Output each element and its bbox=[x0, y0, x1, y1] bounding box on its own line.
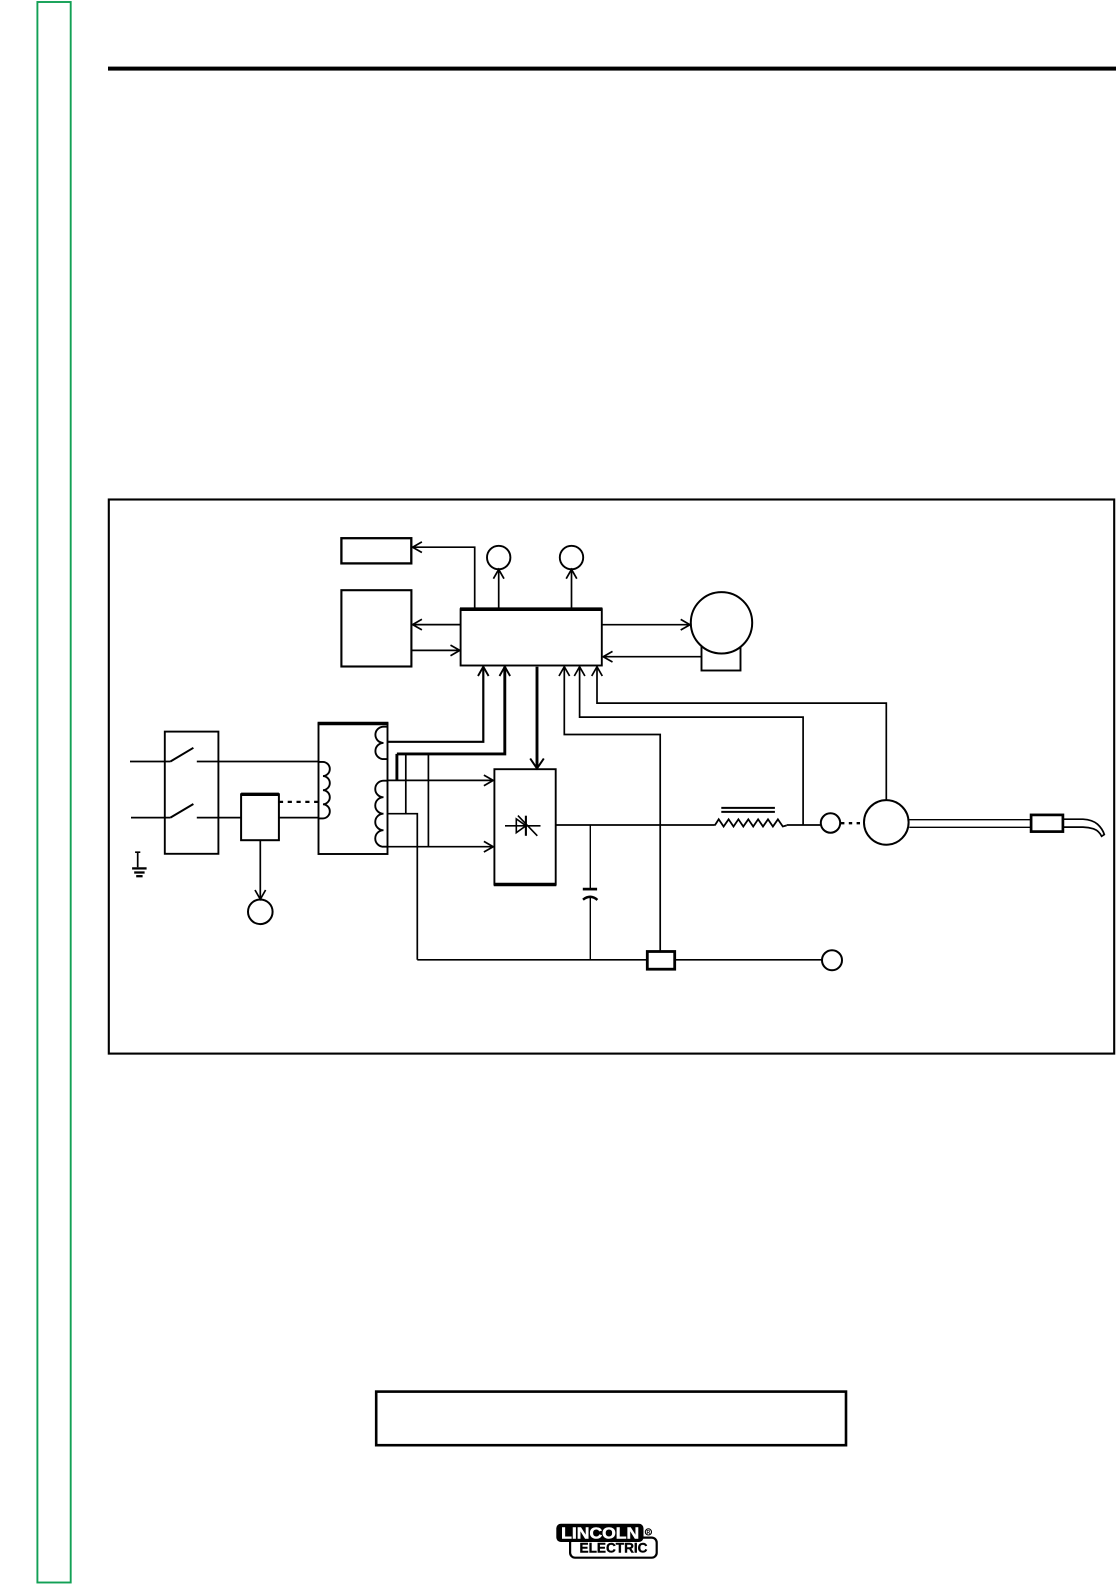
svg-text:ELECTRIC: ELECTRIC bbox=[580, 1541, 648, 1556]
svg-text:R: R bbox=[647, 1530, 651, 1536]
